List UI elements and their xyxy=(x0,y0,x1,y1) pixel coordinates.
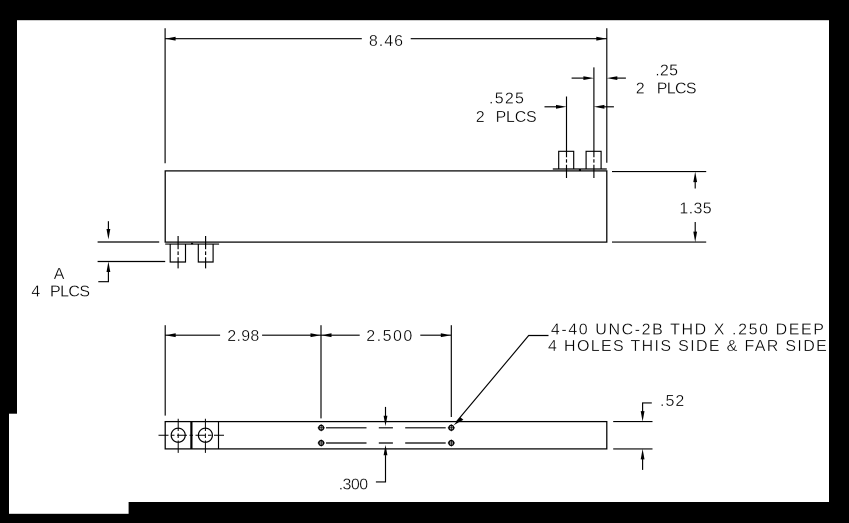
hole 2 vertical centerline xyxy=(204,419,206,453)
svg-text:4-40 UNC-2B THD X .250 DEEP: 4-40 UNC-2B THD X .250 DEEP xyxy=(551,321,824,338)
.300 lower arrow and leader xyxy=(376,455,386,482)
.52 lower arrow xyxy=(642,459,644,470)
2.500 left arrowhead xyxy=(321,333,332,337)
leader line xyxy=(456,336,549,423)
threaded hole top-left xyxy=(318,424,325,431)
.525 right arrow xyxy=(604,106,614,108)
svg-text:1.35: 1.35 xyxy=(679,200,711,217)
svg-text:PLCS: PLCS xyxy=(50,284,90,301)
8.46 left extension line xyxy=(164,28,166,163)
1.35 top extension line xyxy=(612,171,706,173)
clearance hole 1 xyxy=(171,428,185,442)
svg-text:PLCS: PLCS xyxy=(657,80,697,97)
threaded hole top-right xyxy=(448,424,455,431)
top tab 2 xyxy=(586,151,601,169)
A down arrow xyxy=(107,221,109,229)
foot 1 centerline xyxy=(177,236,179,268)
2.500 right extension line xyxy=(450,325,452,417)
2.98 right arrowhead xyxy=(311,333,322,337)
8.46 right arrowhead xyxy=(596,37,607,41)
weld dot bottom xyxy=(191,243,193,245)
foot 2 centerline xyxy=(205,236,207,268)
.25 left arrow xyxy=(572,77,584,79)
foot 1 xyxy=(170,244,185,262)
A upper extension line xyxy=(98,241,160,243)
bottom view thick divider xyxy=(190,422,192,449)
svg-text:A: A xyxy=(54,266,65,283)
2.98 left extension line xyxy=(164,325,166,415)
2.98 left arrowhead xyxy=(165,333,176,337)
svg-text:.25: .25 xyxy=(655,63,678,80)
top tab 1 centerline xyxy=(566,97,568,179)
holes horizontal centerline xyxy=(159,434,226,436)
sheet lower-left extension xyxy=(9,414,129,514)
.52 top extension line xyxy=(613,421,652,423)
thread hidden line lower xyxy=(326,442,446,444)
svg-text:4 HOLES THIS SIDE & FAR SIDE: 4 HOLES THIS SIDE & FAR SIDE xyxy=(548,338,827,355)
top tab 1 xyxy=(559,151,574,169)
bottom view thin divider xyxy=(218,422,220,449)
svg-text:8.46: 8.46 xyxy=(369,33,403,50)
clearance hole 2 xyxy=(198,428,212,442)
.52 bottom extension line xyxy=(613,448,652,450)
dimension line segments xyxy=(165,334,451,336)
bottom strip line xyxy=(165,243,219,245)
top tab 2 centerline xyxy=(593,67,595,178)
.525 left arrow xyxy=(545,106,557,108)
svg-text:.525: .525 xyxy=(489,91,524,108)
8.46 right extension line xyxy=(606,28,608,163)
svg-text:2.98: 2.98 xyxy=(227,328,259,345)
threaded hole bottom-right xyxy=(448,440,455,447)
svg-text:.300: .300 xyxy=(339,477,369,494)
8.46 left arrowhead xyxy=(165,37,176,41)
svg-text:4: 4 xyxy=(31,284,40,301)
svg-text:PLCS: PLCS xyxy=(496,109,537,126)
thread hidden line upper xyxy=(326,427,446,429)
1.35 upper arrow xyxy=(694,182,696,189)
leader arrowhead xyxy=(453,417,463,425)
.25 right arrow xyxy=(617,77,626,79)
svg-text:2.500: 2.500 xyxy=(366,328,412,345)
svg-text:2: 2 xyxy=(636,80,645,97)
.300 upper arrow xyxy=(385,407,387,416)
2.500 right arrowhead xyxy=(441,333,452,337)
svg-text:.52: .52 xyxy=(660,393,684,410)
1.35 lower arrow xyxy=(694,222,696,232)
top mounting strip line xyxy=(553,168,607,170)
threaded hole bottom-left xyxy=(318,440,325,447)
weld dot top xyxy=(579,169,581,171)
.52 upper arrow with bracket xyxy=(643,403,652,412)
foot 2 xyxy=(198,244,213,262)
bottom view body outline xyxy=(165,422,607,449)
1.35 bottom extension line xyxy=(612,241,706,243)
top view body outline xyxy=(165,171,607,242)
A up arrow and leader xyxy=(98,272,108,282)
hole 1 vertical centerline xyxy=(177,419,179,453)
svg-text:2: 2 xyxy=(476,109,485,126)
shared middle extension line xyxy=(320,325,322,418)
A lower extension line xyxy=(98,261,166,263)
8.46 dimension line xyxy=(165,38,607,40)
